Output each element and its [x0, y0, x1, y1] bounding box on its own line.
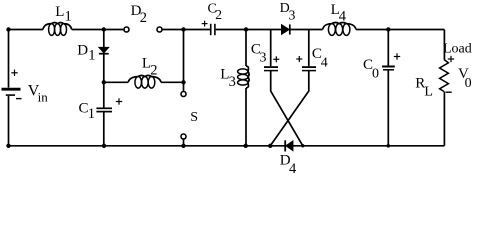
- svg-text:Load: Load: [443, 41, 472, 56]
- svg-text:1: 1: [88, 48, 95, 64]
- svg-text:2: 2: [150, 63, 157, 79]
- svg-text:0: 0: [465, 76, 472, 91]
- svg-text:4: 4: [339, 9, 347, 25]
- svg-text:2: 2: [215, 7, 222, 22]
- svg-text:1: 1: [88, 106, 95, 122]
- svg-text:D: D: [77, 43, 88, 59]
- svg-text:3: 3: [289, 8, 296, 23]
- svg-text:L: L: [424, 85, 433, 100]
- svg-text:S: S: [190, 110, 198, 125]
- svg-text:0: 0: [372, 66, 379, 81]
- svg-text:in: in: [38, 90, 49, 105]
- svg-text:L: L: [55, 4, 64, 20]
- svg-text:3: 3: [260, 50, 267, 65]
- svg-text:3: 3: [229, 74, 236, 90]
- svg-text:2: 2: [140, 10, 147, 26]
- svg-text:4: 4: [289, 161, 297, 175]
- svg-text:1: 1: [65, 9, 72, 25]
- svg-text:4: 4: [321, 55, 328, 70]
